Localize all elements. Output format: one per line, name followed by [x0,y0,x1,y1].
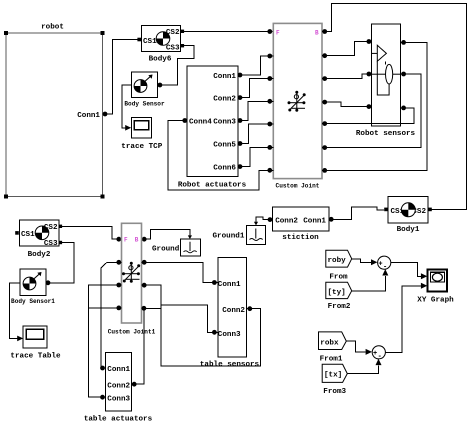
wire Body6 CS3 to Body Sensor [158,46,194,85]
block Custom Joint1 [122,223,142,323]
block table actuators [106,353,132,412]
svg-text:Conn3: Conn3 [213,118,236,126]
block trace TCP (scope) [131,118,151,138]
svg-text:Conn1: Conn1 [107,366,130,374]
wire stiction Conn2 to Ground1 [256,217,272,223]
From tag [tx] [322,364,347,382]
svg-text:Robot sensors: Robot sensors [356,130,416,138]
Body6 CS3 output port mark [181,44,184,47]
svg-text:Conn2: Conn2 [222,307,245,315]
sum block Sum2 [372,346,385,359]
svg-text:Conn2: Conn2 [213,96,236,104]
wire Custom Joint B to Body1 CS2 (top loop) [322,4,467,210]
svg-text:From3: From3 [323,388,346,396]
block Custom Joint [273,23,322,178]
svg-text:Custom Joint: Custom Joint [276,183,320,190]
wire robx to Sum2 [346,341,365,352]
svg-text:trace TCP: trace TCP [121,143,162,151]
block table sensors [218,257,247,357]
svg-text:Conn5: Conn5 [213,141,236,149]
robot corner handles [4,31,104,198]
svg-text:Body Sensor1: Body Sensor1 [11,298,55,305]
wire Body6 CS2 to Custom Joint F [184,31,273,33]
svg-text:F: F [276,29,280,36]
wire [ty] to Sum1 [352,276,386,291]
Robot sensors icon [371,45,400,95]
svg-text:robot: robot [41,24,64,32]
svg-text:From2: From2 [328,303,351,311]
svg-text:CS1: CS1 [143,38,157,46]
svg-text:Conn1: Conn1 [213,73,236,81]
wire Robot actuators Conn4 to Custom Joint port7 [168,121,273,191]
svg-text:Conn1: Conn1 [218,281,241,289]
wire Body Sensor1 to trace Table [9,283,20,339]
svg-text:Ground: Ground [152,245,180,253]
Body6 CS2 output port mark [181,30,184,33]
svg-text:Conn1: Conn1 [303,218,326,226]
svg-text:B: B [315,30,319,37]
wire roby to Sum1 [352,259,371,263]
svg-text:Ground1: Ground1 [212,233,244,241]
block Robot sensors [371,24,400,126]
block Body1 [388,197,428,224]
svg-text:Body Sensor: Body Sensor [124,101,165,108]
wires Custom Joint1 left ports to table actuators [89,262,122,397]
block Body2 [19,220,59,246]
From tag robx [319,332,347,350]
block Body Sensor [131,72,157,98]
wire Sum1 to XY Graph [391,263,421,277]
block trace Table (scope) [23,326,47,348]
svg-text:trace Table: trace Table [10,353,61,361]
svg-text:Conn2: Conn2 [275,218,298,226]
block Ground1 [246,225,265,244]
block Body6 [141,26,180,52]
wire stiction Conn1 to Body1 CS1 [329,207,384,220]
svg-text:Conn2: Conn2 [107,382,130,390]
block Body Sensor1 [20,269,46,296]
svg-text:[tx]: [tx] [324,372,342,380]
svg-text:+: + [378,260,382,268]
svg-text:XY Graph: XY Graph [417,297,454,305]
svg-text:Body1: Body1 [397,226,420,234]
svg-text:Conn6: Conn6 [213,164,236,172]
wire Sum2 to XY Graph [385,286,421,353]
wire robot Conn1 to Body6 CS1 [103,40,138,115]
Custom Joint icon [289,94,305,111]
sum block Sum1 [378,256,391,269]
svg-text:roby: roby [328,257,347,265]
svg-text:+: + [373,350,377,358]
svg-text:F: F [124,237,128,244]
svg-text:Conn4: Conn4 [189,118,212,126]
svg-text:[ty]: [ty] [328,289,346,297]
wire Body2 CS2 to Custom Joint1 F [62,226,122,239]
wires Custom Joint1 right ports to table sensors / table actuators Conn2 [132,262,261,384]
svg-text:CS3: CS3 [166,45,180,53]
svg-text:Body2: Body2 [28,251,51,259]
svg-text:table sensors: table sensors [200,361,260,369]
svg-text:Robot actuators: Robot actuators [178,182,247,190]
svg-text:Conn3: Conn3 [218,331,241,339]
svg-text:table actuators: table actuators [84,415,153,423]
wire Ground to Custom Joint1 B [142,229,190,239]
wire Body2 CS3 to Body Sensor1 [46,243,74,283]
wire Body Sensor to trace TCP [122,85,131,128]
wire [tx] to Sum2 [347,365,378,373]
Body6 icon [156,32,170,46]
svg-text:Custom Joint1: Custom Joint1 [108,328,156,335]
svg-text:CS3: CS3 [44,240,58,248]
svg-text:From1: From1 [320,356,343,364]
Body Sensor icon [134,75,152,93]
svg-text:Conn3: Conn3 [107,396,130,404]
wires Robot actuators to Custom Joint [238,56,273,167]
block stiction [273,207,330,231]
robot subsystem box [6,33,103,197]
svg-text:Body6: Body6 [149,56,172,64]
block Ground [181,239,201,256]
Custom Joint1 icon [124,265,140,282]
svg-text:robx: robx [320,339,339,347]
svg-text:Conn1: Conn1 [77,112,100,120]
svg-text:From: From [329,274,348,282]
svg-text:stiction: stiction [282,234,319,242]
From tag [ty] [326,282,352,298]
block Robot actuators [187,66,238,177]
From tag roby [326,250,352,267]
wires Custom Joint to Robot sensors (left side) [322,42,371,107]
svg-text:CS1: CS1 [21,231,35,239]
block XY Graph [428,270,448,292]
wires Custom Joint to Robot sensors (right side loops) [322,42,427,170]
svg-text:B: B [135,237,139,244]
